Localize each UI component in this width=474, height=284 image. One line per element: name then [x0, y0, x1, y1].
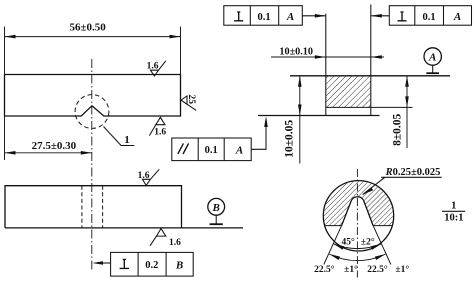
centerline of notch (vertical dash-dot through both left views) — [91, 59, 93, 272]
section view lower surface line — [258, 115, 380, 117]
detail chord line right — [373, 225, 392, 227]
leader from right frame — [371, 15, 390, 17]
bottom view outline (lower-left) — [5, 186, 182, 228]
svg-text:8±0.05: 8±0.05 — [391, 113, 403, 145]
section hatch area — [326, 76, 371, 108]
detail view circle — [323, 181, 393, 251]
radius leader R0.25±0.025 — [363, 177, 442, 194]
dimension 27.5±0.30 — [4, 116, 6, 160]
svg-text:27.5±0.30: 27.5±0.30 — [32, 140, 77, 152]
angle extension line right — [373, 226, 391, 265]
svg-text:25: 25 — [186, 94, 196, 104]
svg-text:A: A — [286, 11, 294, 23]
svg-text:±2°: ±2° — [361, 236, 375, 247]
section rib left edge / extension line — [325, 14, 327, 116]
detail centerline — [356, 169, 358, 278]
svg-text:10:1: 10:1 — [444, 213, 463, 224]
section rib bottom edge — [326, 106, 371, 108]
svg-text:56±0.50: 56±0.50 — [69, 21, 106, 33]
detail hatch region (circle top segment minus notch bell) — [323, 181, 393, 226]
surface finish 1.6 on top face of front view — [150, 70, 158, 76]
svg-text:1: 1 — [451, 201, 456, 212]
svg-text:0.1: 0.1 — [205, 145, 218, 156]
dimension 10±0.05 (vertical) — [299, 76, 301, 164]
angle extension line left — [324, 226, 342, 265]
surface finish 1.6 on top face of bottom view — [142, 179, 150, 185]
svg-text:1.6: 1.6 — [147, 62, 159, 72]
feature control frame ⊥ 0.1 A (right) — [389, 6, 471, 26]
leader from frame to centerline — [95, 262, 111, 264]
feature control frame // 0.1 A — [172, 138, 251, 161]
detail circle callout around notch — [75, 95, 109, 129]
feature control frame ⊥ 0.2 B — [111, 252, 194, 276]
22.5 degree dimension arc — [329, 254, 385, 261]
bottom face line extended to datum B — [5, 227, 243, 229]
section rib right edge / extension line — [370, 5, 372, 116]
svg-text:22.5°: 22.5° — [367, 264, 388, 275]
datum B symbol — [208, 198, 225, 215]
svg-text:10±0.05: 10±0.05 — [284, 120, 296, 158]
surface finish 1.6 on bottom face of front view — [156, 117, 165, 124]
section view top surface line — [290, 75, 450, 77]
leader from left frame — [302, 15, 326, 17]
svg-text:0.2: 0.2 — [145, 260, 158, 271]
svg-text:R0.25±0.025: R0.25±0.025 — [385, 167, 441, 178]
hidden line of notch (right) — [102, 186, 104, 228]
45 degree dimension arc — [333, 244, 381, 249]
svg-text:±1°: ±1° — [344, 264, 358, 275]
svg-text:B: B — [212, 202, 220, 214]
dimension 56±0.50 — [5, 27, 181, 75]
svg-text:A: A — [453, 11, 461, 23]
svg-text:0.1: 0.1 — [257, 12, 270, 23]
svg-text:1.6: 1.6 — [169, 238, 181, 248]
feature control frame ⊥ 0.1 A (left) — [224, 6, 302, 26]
leader to detail label 1 — [104, 127, 135, 146]
svg-text:1.6: 1.6 — [154, 128, 166, 138]
leader from // frame up to lower surface — [251, 119, 266, 149]
dimension 8±0.05 (vertical) — [406, 76, 408, 148]
notch bell profile — [342, 197, 374, 226]
svg-text:A: A — [235, 144, 243, 156]
datum A symbol — [424, 48, 441, 65]
svg-text:±1°: ±1° — [395, 264, 409, 275]
front view outline (top-left) with V-notch — [5, 75, 181, 117]
svg-text:0.1: 0.1 — [423, 12, 436, 23]
svg-text:10±0.10: 10±0.10 — [279, 47, 313, 58]
surface finish 1.6 on bottom face of bottom view — [157, 229, 166, 237]
svg-text:A: A — [428, 52, 436, 64]
svg-text:1: 1 — [124, 134, 130, 146]
svg-text:B: B — [175, 259, 183, 271]
surface finish 25 on right face of front view — [181, 96, 187, 104]
hidden line of notch (left) — [81, 186, 83, 228]
extension line for 8 dimension — [371, 106, 413, 108]
detail chord line left — [325, 225, 342, 227]
dimension 10±0.10 — [271, 56, 384, 58]
svg-text:45°: 45° — [342, 236, 356, 247]
svg-text:22.5°: 22.5° — [314, 264, 335, 275]
svg-text:1.6: 1.6 — [138, 171, 150, 181]
